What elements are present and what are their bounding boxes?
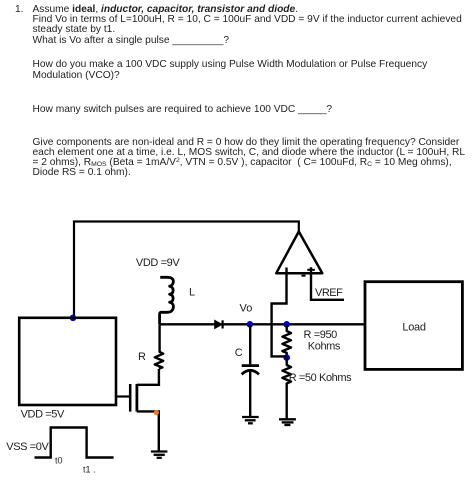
minus input mark <box>302 275 306 277</box>
ground at capacitor <box>242 417 259 423</box>
pulse generator box U1 <box>19 318 116 405</box>
node divider middle (blue junction) <box>283 354 290 361</box>
svg-text:VSS =0V: VSS =0V <box>6 441 49 453</box>
plus input mark <box>307 269 315 271</box>
wire source: channel bottom to ground <box>137 411 159 451</box>
diode D1 <box>215 320 222 328</box>
resistor R1 950 Kohms <box>282 324 291 357</box>
svg-text:VDD =9V: VDD =9V <box>136 257 180 269</box>
question number <box>15 5 24 15</box>
paragraph 1 <box>33 5 462 46</box>
resistor R (drain) <box>155 352 163 369</box>
svg-text:t1 .: t1 . <box>83 465 96 475</box>
node on pulse generator box top (blue junction) <box>70 315 77 322</box>
svg-text:Vo: Vo <box>240 303 253 315</box>
capacitor C top plate <box>242 364 259 367</box>
transistor Q1 channel bar <box>135 384 138 412</box>
wire feedback top: comparator output to pulse-generator box <box>74 222 299 318</box>
diode D1 cathode bar <box>222 320 224 328</box>
svg-text:Kohms: Kohms <box>308 340 341 352</box>
wire drain: channel top to resistor R <box>137 369 159 385</box>
op-amp U2 comparator triangle <box>276 232 322 274</box>
wire plus input to VREF terminal <box>311 267 344 300</box>
paragraph 3 <box>33 105 333 115</box>
ground at divider <box>279 419 296 425</box>
svg-text:C: C <box>235 347 243 359</box>
resistor R2 50 Kohms <box>282 358 291 419</box>
node Vo (blue junction) <box>247 321 254 328</box>
VSS pulse waveform <box>35 428 114 458</box>
wire capacitor to ground <box>249 372 251 417</box>
capacitor C bottom curved plate <box>242 370 259 374</box>
svg-text:Load: Load <box>402 322 425 334</box>
paragraph 2 <box>33 60 428 81</box>
wire drain branch down from rail <box>158 324 160 352</box>
svg-text:VREF: VREF <box>315 287 343 299</box>
load box <box>365 282 462 370</box>
wire capacitor branch <box>249 324 251 364</box>
svg-text:R =950: R =950 <box>304 329 338 341</box>
svg-text:R: R <box>138 351 146 363</box>
svg-text:R =50 Kohms: R =50 Kohms <box>289 372 352 384</box>
svg-text:t0: t0 <box>55 456 63 466</box>
svg-text:VDD =5V: VDD =5V <box>21 409 65 421</box>
paragraph 4 <box>33 138 466 179</box>
node source (orange) <box>154 410 159 415</box>
wire node Vo rail: main horizontal line to load <box>160 323 365 325</box>
transistor Q1 (MOS switch) gate bar <box>129 384 132 412</box>
wire gate: box output to MOSFET gate <box>116 395 130 397</box>
node divider top (blue junction) <box>283 321 290 328</box>
wire feedback from divider tap to comparator inverting input <box>272 268 287 357</box>
inductor L coil <box>160 277 174 324</box>
svg-text:L: L <box>189 287 195 299</box>
ground at MOSFET source <box>151 452 168 458</box>
